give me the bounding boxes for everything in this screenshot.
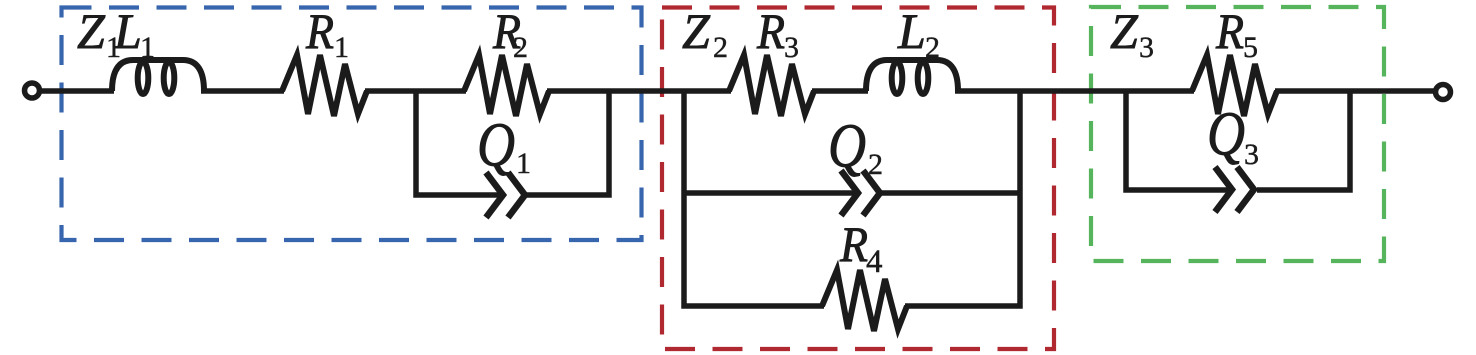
svg-text:Q: Q [1207, 101, 1245, 169]
svg-text:3: 3 [784, 31, 799, 64]
resistor R5 [1192, 55, 1277, 116]
wire Q2 branch right [881, 190, 1023, 196]
svg-text:2: 2 [868, 148, 883, 181]
svg-text:1: 1 [140, 31, 155, 64]
resistor R2 [464, 55, 549, 116]
svg-text:3: 3 [1244, 138, 1259, 171]
inductor L1 [112, 60, 204, 94]
wire R5 to right terminal [1275, 88, 1435, 94]
svg-text:L: L [897, 3, 926, 59]
wire parallel3 left branch [1126, 89, 1229, 191]
CPE Q3 [1215, 167, 1254, 212]
wire parallel2 right vertical [905, 89, 1020, 307]
svg-text:Z: Z [1110, 3, 1139, 59]
wire Q2 branch left [682, 190, 856, 196]
svg-text:Q: Q [477, 112, 515, 180]
svg-text:4: 4 [866, 244, 883, 280]
dashed box Z1 (blue) [62, 8, 642, 241]
wire L2 to R5 [955, 88, 1194, 94]
wire R2 to R3 [547, 88, 731, 94]
resistor R1 [282, 55, 367, 116]
svg-text:5: 5 [1243, 31, 1258, 64]
svg-text:Z: Z [682, 3, 711, 59]
wire R1 to R2 [365, 88, 466, 94]
wire terminal to L1 [40, 88, 114, 94]
svg-text:R: R [1215, 3, 1244, 59]
resistor R4 [822, 270, 907, 331]
svg-text:2: 2 [925, 31, 940, 64]
CPE Q2 [841, 171, 880, 216]
svg-text:Q: Q [828, 113, 866, 181]
dashed box Z3 (green) [1091, 7, 1384, 261]
svg-text:1: 1 [516, 147, 531, 180]
svg-text:3: 3 [1139, 31, 1154, 64]
wire parallel3 right branch [1257, 89, 1350, 191]
right terminal [1436, 85, 1451, 100]
left terminal [25, 83, 40, 98]
wire parallel1 left branch [416, 89, 499, 196]
svg-text:R: R [756, 3, 785, 59]
svg-text:L: L [113, 3, 142, 59]
wire L1 to R1 [201, 88, 284, 94]
svg-text:R: R [305, 3, 334, 59]
svg-text:2: 2 [713, 31, 728, 64]
dashed box Z2 (red) [662, 8, 1054, 350]
svg-text:1: 1 [334, 31, 349, 64]
svg-text:Z: Z [77, 3, 106, 59]
wire parallel1 right branch [527, 89, 609, 196]
resistor R3 [729, 55, 814, 116]
CPE Q1 [486, 173, 525, 218]
svg-text:R: R [839, 216, 868, 272]
wire R3 to L2 [812, 88, 868, 94]
inductor L2 [866, 60, 958, 94]
wire parallel2 left vertical [684, 89, 824, 307]
svg-text:2: 2 [513, 31, 528, 64]
